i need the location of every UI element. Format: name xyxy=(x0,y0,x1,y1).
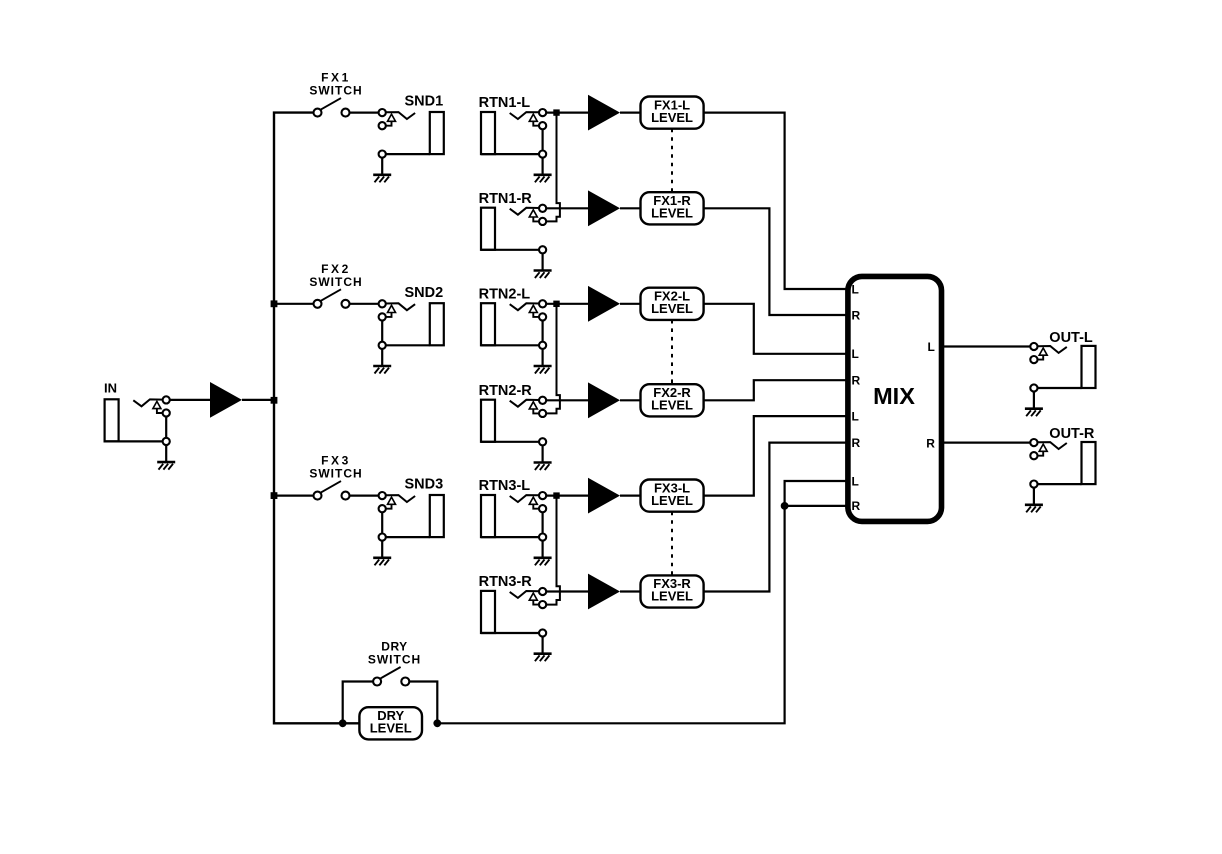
jack RTN1-R tip terminal xyxy=(539,205,546,212)
switch DRY SWITCH pole xyxy=(373,678,381,686)
jack IN switch contact triangle xyxy=(153,401,161,408)
jack OUT-R switch contact triangle xyxy=(1039,444,1047,451)
level block DRY LEVEL xyxy=(359,707,422,739)
wire RTN1-R sleeve xyxy=(481,249,543,251)
ground (RTN3-L) xyxy=(541,541,543,558)
wire SND2 unplugged-contact to sleeve xyxy=(381,320,383,342)
MIX block U1 xyxy=(848,276,942,521)
jack SND2 switch contact triangle xyxy=(388,305,396,312)
jack RTN3-L sleeve contact rect xyxy=(481,495,495,537)
op-amp buffer RTN2-R buffer xyxy=(588,382,620,418)
wire SND3 sleeve xyxy=(382,536,430,538)
svg-text:R: R xyxy=(852,308,861,322)
jack SND3 tip spring contact xyxy=(386,495,416,502)
jack RTN1-L sleeve terminal xyxy=(539,151,546,158)
wire RTN1-L normalled to RTN1-R xyxy=(546,113,560,222)
jack SND2 sleeve terminal xyxy=(379,342,386,349)
wire SND1 sleeve xyxy=(382,153,430,155)
svg-text:RTN3-L: RTN3-L xyxy=(479,478,531,494)
switch DRY SWITCH throw xyxy=(401,678,409,686)
wire RTN3-L unplugged-contact to sleeve xyxy=(541,512,543,534)
dashed link FX2-L/FX2-R ganged level xyxy=(671,320,673,384)
jack RTN1-L switch contact triangle xyxy=(529,114,537,121)
level block FX3-L LEVEL xyxy=(641,480,704,512)
jack IN switch terminal xyxy=(163,409,170,416)
junction dry L/R split xyxy=(781,502,789,510)
jack OUT-R sleeve terminal xyxy=(1030,481,1037,488)
jack SND1 tip terminal xyxy=(379,109,386,116)
wire RTN1-R contact step xyxy=(533,217,539,221)
jack RTN3-L tip spring contact xyxy=(510,495,540,502)
svg-text:L: L xyxy=(852,409,859,423)
jack RTN1-R switch contact triangle xyxy=(529,210,537,217)
jack RTN3-R switch terminal xyxy=(539,601,546,608)
wire OUT-R sleeve xyxy=(1034,483,1082,485)
switch FX1 SWITCH throw xyxy=(342,109,350,117)
jack RTN3-L sleeve terminal xyxy=(539,534,546,541)
switch FX3 SWITCH lever xyxy=(319,481,341,494)
jack SND1 tip spring contact xyxy=(386,112,416,119)
jack RTN2-L xyxy=(479,286,552,373)
jack OUT-L xyxy=(1025,330,1096,416)
svg-text:R: R xyxy=(852,499,861,513)
jack OUT-R tip spring contact xyxy=(1037,442,1067,449)
svg-text:L: L xyxy=(852,347,859,361)
svg-text:FX3: FX3 xyxy=(321,454,351,468)
svg-text:SWITCH: SWITCH xyxy=(309,84,362,98)
wire SND2 contact step xyxy=(386,313,392,317)
wire IN unplugged-contact to sleeve xyxy=(165,416,167,438)
ground (RTN2-R) xyxy=(541,445,543,462)
svg-text:RTN1-L: RTN1-L xyxy=(479,95,531,111)
wire RTN2-L normalled to RTN2-R xyxy=(546,304,560,414)
jack SND1 xyxy=(373,94,444,183)
jack RTN2-L sleeve contact rect xyxy=(481,303,495,345)
wire FX3 switch to SND3 xyxy=(350,495,379,497)
switch FX1 SWITCH xyxy=(309,71,362,117)
svg-text:SWITCH: SWITCH xyxy=(309,467,362,481)
ground (OUT-L) xyxy=(1033,392,1035,409)
jack RTN1-R sleeve terminal xyxy=(539,246,546,253)
wire RTN2-L to amp xyxy=(546,303,588,305)
switch DRY SWITCH lever xyxy=(379,667,401,680)
svg-text:SWITCH: SWITCH xyxy=(309,275,362,289)
wire FX2 switch to SND2 xyxy=(350,303,379,305)
jack SND3 sleeve contact rect xyxy=(430,495,444,537)
ground (SND1) xyxy=(381,158,383,175)
jack RTN3-L xyxy=(479,478,552,565)
jack RTN1-L xyxy=(479,95,552,182)
svg-text:LEVEL: LEVEL xyxy=(651,110,693,125)
jack OUT-L switch terminal xyxy=(1030,356,1037,363)
wire: bus branch FX2 xyxy=(274,303,314,305)
jack RTN2-L sleeve terminal xyxy=(539,342,546,349)
switch FX3 SWITCH xyxy=(309,454,362,500)
ground (SND2) xyxy=(381,349,383,366)
ground (RTN1-R) xyxy=(541,253,543,270)
jack RTN1-R sleeve contact rect xyxy=(481,208,495,250)
op-amp buffer RTN1-R buffer xyxy=(588,190,620,226)
wire RTN2-L unplugged-contact to sleeve xyxy=(541,320,543,342)
wire MIX L output xyxy=(942,345,1031,347)
jack SND3 tip terminal xyxy=(379,492,386,499)
jack RTN1-R switch terminal xyxy=(539,218,546,225)
jack RTN2-R xyxy=(479,383,552,470)
switch FX1 SWITCH pole xyxy=(314,109,322,117)
dashed link FX3-L/FX3-R ganged level xyxy=(671,512,673,576)
jack RTN2-L switch contact triangle xyxy=(529,305,537,312)
wire amp to FX2-R LEVEL xyxy=(620,399,641,401)
junction dry bypass right xyxy=(433,719,441,727)
jack RTN2-R switch terminal xyxy=(539,410,546,417)
ground (RTN1-L) xyxy=(541,158,543,175)
jack SND1 sleeve contact rect xyxy=(430,112,444,154)
svg-text:FX1: FX1 xyxy=(321,71,351,85)
switch FX2 SWITCH lever xyxy=(319,289,341,302)
wire RTN2-L sleeve xyxy=(481,344,543,346)
svg-text:SND1: SND1 xyxy=(405,94,444,110)
jack RTN2-R sleeve contact rect xyxy=(481,400,495,442)
jack OUT-R switch terminal xyxy=(1030,452,1037,459)
jack OUT-R tip terminal xyxy=(1030,439,1037,446)
jack SND3 switch terminal xyxy=(379,505,386,512)
switch FX1 SWITCH lever xyxy=(319,98,341,111)
jack RTN3-R switch contact triangle xyxy=(529,593,537,600)
op-amp buffer RTN1-L buffer xyxy=(588,95,620,131)
jack RTN2-L tip spring contact xyxy=(510,303,540,310)
wire FX2-R LEVEL to MIX xyxy=(704,380,848,400)
jack IN xyxy=(104,381,175,470)
svg-text:IN: IN xyxy=(104,381,117,396)
wire amp to FX1-L LEVEL xyxy=(620,111,641,113)
wire RTN2-R contact step xyxy=(533,409,539,413)
svg-text:LEVEL: LEVEL xyxy=(651,589,693,604)
wire RTN3-R sleeve xyxy=(481,632,543,634)
jack OUT-L switch contact triangle xyxy=(1039,348,1047,355)
wire amp to FX1-R LEVEL xyxy=(620,207,641,209)
ground (OUT-R) xyxy=(1033,488,1035,505)
wire FX3-R LEVEL to MIX xyxy=(704,443,848,592)
jack IN sleeve contact rect xyxy=(105,399,119,441)
jack RTN1-L tip terminal xyxy=(539,109,546,116)
wire RTN2-L contact step xyxy=(533,313,539,317)
svg-text:SND2: SND2 xyxy=(405,285,444,301)
level block FX1-R LEVEL xyxy=(641,192,704,224)
svg-text:LEVEL: LEVEL xyxy=(651,206,693,221)
ground (RTN2-L) xyxy=(541,349,543,366)
jack RTN3-R sleeve contact rect xyxy=(481,591,495,633)
wire RTN2-R to amp xyxy=(546,399,588,401)
svg-text:FX2: FX2 xyxy=(321,262,351,276)
wire IN jack to buffer xyxy=(170,399,210,401)
wire RTN3-L sleeve xyxy=(481,536,543,538)
wire RTN3-L to amp xyxy=(546,495,588,497)
junction: bus / FX3 branch xyxy=(271,492,278,499)
wire FX1-L LEVEL to MIX xyxy=(704,113,848,289)
wire FX3-L LEVEL to MIX xyxy=(704,416,848,496)
wire FX1 switch to SND1 xyxy=(350,111,379,113)
wire RTN2-R sleeve xyxy=(481,441,543,443)
wire amp to FX2-L LEVEL xyxy=(620,303,641,305)
jack RTN2-L switch terminal xyxy=(539,313,546,320)
svg-text:L: L xyxy=(928,340,935,354)
switch FX2 SWITCH throw xyxy=(342,300,350,308)
jack RTN2-R sleeve terminal xyxy=(539,438,546,445)
wire DRY LEVEL to MIX xyxy=(437,481,848,723)
wire RTN3-R contact step xyxy=(533,600,539,604)
level block FX1-L LEVEL xyxy=(641,97,704,129)
jack RTN1-L sleeve contact rect xyxy=(481,112,495,154)
op-amp buffer RTN2-L buffer xyxy=(588,286,620,322)
svg-text:LEVEL: LEVEL xyxy=(370,721,412,736)
svg-text:R: R xyxy=(852,436,861,450)
jack RTN3-R xyxy=(479,574,552,661)
wire: bus branch FX3 xyxy=(274,495,314,497)
jack RTN2-R tip terminal xyxy=(539,397,546,404)
jack RTN1-L switch terminal xyxy=(539,122,546,129)
jack OUT-L tip spring contact xyxy=(1037,346,1067,353)
jack RTN3-L switch contact triangle xyxy=(529,497,537,504)
svg-text:SND3: SND3 xyxy=(405,477,444,493)
op-amp buffer RTN3-R buffer xyxy=(588,574,620,610)
wire RTN1-L unplugged-contact to sleeve xyxy=(541,129,543,151)
level block FX2-R LEVEL xyxy=(641,384,704,416)
jack OUT-L sleeve terminal xyxy=(1030,384,1037,391)
jack RTN2-L tip terminal xyxy=(539,300,546,307)
junction dry bypass left xyxy=(339,719,347,727)
svg-text:RTN2-L: RTN2-L xyxy=(479,286,531,302)
svg-text:R: R xyxy=(852,374,861,388)
jack SND3 xyxy=(373,477,444,566)
jack RTN2-R switch contact triangle xyxy=(529,402,537,409)
wire SND3 unplugged-contact to sleeve xyxy=(381,512,383,534)
junction: bus / FX2 branch xyxy=(271,300,278,307)
svg-text:OUT-L: OUT-L xyxy=(1049,330,1093,346)
jack IN tip terminal xyxy=(163,396,170,403)
switch DRY SWITCH xyxy=(368,640,421,686)
jack RTN3-R tip spring contact xyxy=(510,591,540,598)
wire dry switch bypass right xyxy=(409,682,437,724)
wire DRY to MIX R input xyxy=(785,505,848,507)
jack SND3 switch contact triangle xyxy=(388,497,396,504)
junction RTN3-L normalling tap xyxy=(553,492,559,498)
jack RTN3-L switch terminal xyxy=(539,505,546,512)
wire RTN1-R to amp xyxy=(546,207,588,209)
jack SND3 sleeve terminal xyxy=(379,534,386,541)
svg-text:DRY: DRY xyxy=(381,640,407,654)
jack SND1 switch terminal xyxy=(379,122,386,129)
wire FX1-R LEVEL to MIX xyxy=(704,208,848,315)
wire RTN3-R to amp xyxy=(546,590,588,592)
wire IN sleeve xyxy=(105,440,167,442)
wire buffer to bus xyxy=(242,399,274,401)
switch FX2 SWITCH pole xyxy=(314,300,322,308)
jack OUT-R xyxy=(1025,426,1096,512)
dashed link FX1-L/FX1-R ganged level xyxy=(671,129,673,193)
wire SND3 contact step xyxy=(386,504,392,508)
jack SND1 sleeve terminal xyxy=(379,151,386,158)
wire SND2 sleeve xyxy=(382,344,430,346)
wire RTN3-L contact step xyxy=(533,504,539,508)
wire RTN1-L sleeve xyxy=(481,153,543,155)
jack IN sleeve terminal xyxy=(163,438,170,445)
level block FX2-L LEVEL xyxy=(641,288,704,320)
jack OUT-L sleeve contact rect xyxy=(1082,346,1096,388)
svg-text:RTN3-R: RTN3-R xyxy=(479,574,533,590)
jack SND2 xyxy=(373,285,444,374)
wire dry switch bypass left xyxy=(343,682,373,724)
svg-text:R: R xyxy=(926,436,935,450)
op-amp buffer RTN3-L buffer xyxy=(588,478,620,514)
svg-text:L: L xyxy=(852,474,859,488)
jack RTN1-L tip spring contact xyxy=(510,112,540,119)
jack OUT-L tip terminal xyxy=(1030,343,1037,350)
wire amp to FX3-R LEVEL xyxy=(620,590,641,592)
jack SND1 switch contact triangle xyxy=(388,114,396,121)
wire SND1 contact step xyxy=(386,121,392,125)
svg-text:RTN2-R: RTN2-R xyxy=(479,383,533,399)
op-amp buffer input buffer xyxy=(210,382,242,418)
wire IN contact step xyxy=(157,409,163,413)
svg-text:LEVEL: LEVEL xyxy=(651,493,693,508)
svg-text:OUT-R: OUT-R xyxy=(1049,426,1095,442)
jack RTN3-R sleeve terminal xyxy=(539,629,546,636)
ground (RTN3-R) xyxy=(541,637,543,654)
svg-text:RTN1-R: RTN1-R xyxy=(479,191,533,207)
junction RTN2-L normalling tap xyxy=(553,301,559,307)
jack RTN1-R xyxy=(479,191,552,278)
svg-text:L: L xyxy=(852,282,859,296)
wire: main input bus xyxy=(274,113,359,724)
jack RTN3-L tip terminal xyxy=(539,492,546,499)
svg-text:MIX: MIX xyxy=(873,383,915,409)
switch FX3 SWITCH throw xyxy=(342,492,350,500)
svg-text:SWITCH: SWITCH xyxy=(368,653,421,667)
wire OUT-R contact step xyxy=(1037,451,1043,455)
jack OUT-R sleeve contact rect xyxy=(1082,442,1096,484)
wire RTN3-L normalled to RTN3-R xyxy=(546,496,560,605)
jack RTN1-R tip spring contact xyxy=(510,208,540,215)
wire OUT-L sleeve xyxy=(1034,387,1082,389)
jack SND2 tip spring contact xyxy=(386,303,416,310)
jack SND2 tip terminal xyxy=(379,300,386,307)
switch FX2 SWITCH xyxy=(309,262,362,308)
level block FX3-R LEVEL xyxy=(641,575,704,607)
jack SND2 switch terminal xyxy=(379,313,386,320)
wire MIX R output xyxy=(942,442,1031,444)
jack IN tip spring contact xyxy=(133,399,163,406)
svg-text:LEVEL: LEVEL xyxy=(651,301,693,316)
wire OUT-L contact step xyxy=(1037,355,1043,359)
jack RTN3-R tip terminal xyxy=(539,588,546,595)
jack SND2 sleeve contact rect xyxy=(430,303,444,345)
ground (SND3) xyxy=(381,541,383,558)
wire RTN1-L to amp xyxy=(546,111,588,113)
wire amp to FX3-L LEVEL xyxy=(620,495,641,497)
wire RTN1-L contact step xyxy=(533,121,539,125)
switch FX3 SWITCH pole xyxy=(314,492,322,500)
svg-text:LEVEL: LEVEL xyxy=(651,398,693,413)
wire FX2-L LEVEL to MIX xyxy=(704,304,848,354)
junction RTN1-L normalling tap xyxy=(553,109,559,115)
jack RTN2-R tip spring contact xyxy=(510,400,540,407)
ground (IN) xyxy=(165,445,167,462)
junction: bus / input amp xyxy=(271,397,278,404)
